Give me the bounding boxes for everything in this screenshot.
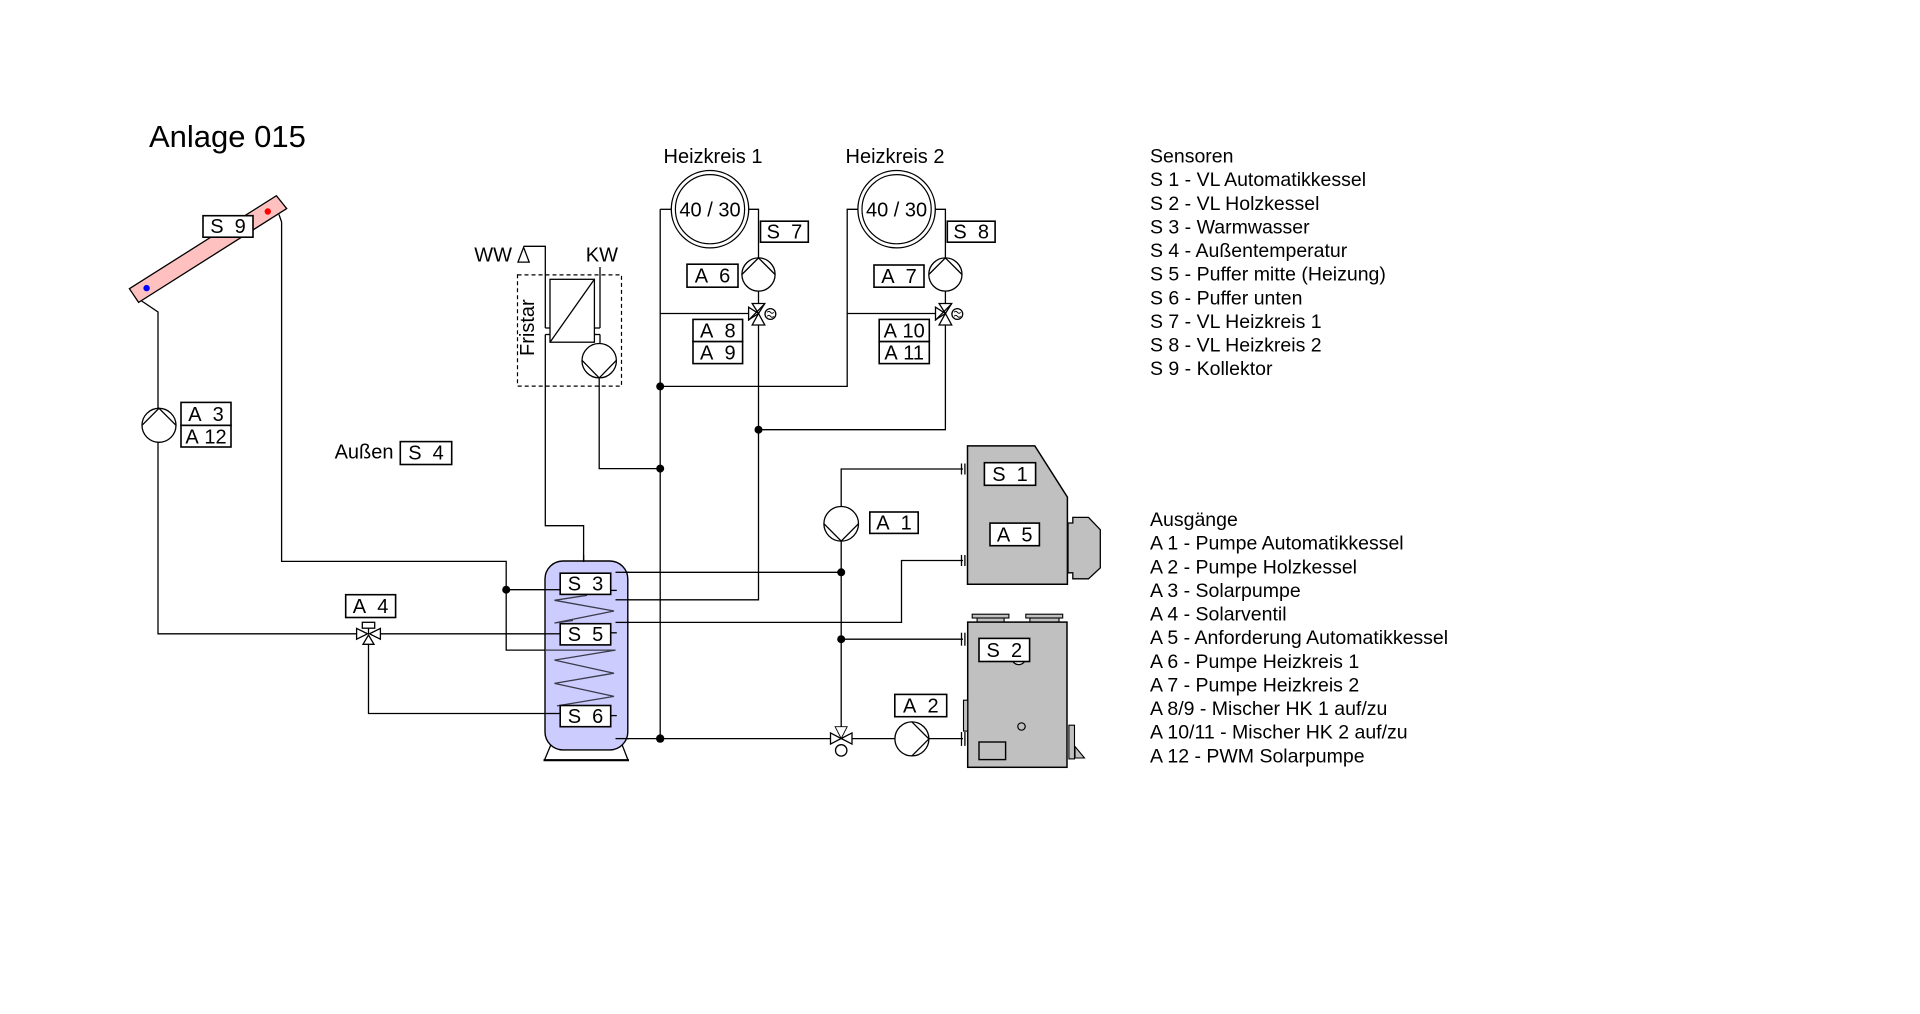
label A12 bbox=[181, 425, 231, 448]
wire: Fristar return to main line bbox=[599, 378, 660, 469]
wire: HK1 pipe pump to valve and down to junction, then to tank bbox=[616, 291, 759, 600]
thermic valve at boiler2 return bbox=[831, 727, 853, 756]
label A2 bbox=[895, 694, 947, 717]
svg-text:S 6: S 6 bbox=[568, 706, 604, 728]
wire: HK1/HK2 return header bbox=[660, 209, 858, 386]
svg-text:A 5: A 5 bbox=[997, 524, 1033, 546]
svg-text:S 9 - Kollektor: S 9 - Kollektor bbox=[1150, 358, 1273, 380]
svg-text:S 5: S 5 bbox=[568, 624, 604, 646]
wire: HK2 valve return to HK1 line bbox=[759, 325, 946, 430]
svg-text:A 7: A 7 bbox=[881, 266, 917, 288]
svg-text:A 12: A 12 bbox=[185, 426, 226, 448]
svg-text:A 1: A 1 bbox=[876, 513, 912, 535]
mixer valve HK1 bbox=[748, 304, 776, 326]
boiler U1 Automatikkessel bbox=[968, 446, 1068, 584]
left plate bbox=[964, 700, 968, 731]
boiler U2 Holzkessel bbox=[964, 614, 1085, 767]
svg-text:A 12 - PWM Solarpumpe: A 12 - PWM Solarpumpe bbox=[1150, 745, 1365, 767]
small knob circle bbox=[1018, 723, 1025, 730]
fire door bbox=[979, 742, 1006, 760]
label A1 bbox=[870, 512, 918, 535]
svg-text:Heizkreis 1: Heizkreis 1 bbox=[664, 146, 763, 168]
junction dot HK2 return bbox=[656, 382, 664, 390]
svg-text:Ausgänge: Ausgänge bbox=[1150, 509, 1238, 531]
svg-text:A 4 - Solarventil: A 4 - Solarventil bbox=[1150, 604, 1287, 626]
svg-text:S 2: S 2 bbox=[987, 640, 1023, 662]
burner attachment bbox=[1068, 517, 1100, 578]
svg-text:KW: KW bbox=[586, 245, 618, 267]
sensor label S3 bbox=[560, 573, 617, 595]
svg-text:40 / 30: 40 / 30 bbox=[866, 199, 927, 221]
sensor label S9 bbox=[203, 216, 253, 239]
wire: tank S3 right to A1 line bbox=[616, 571, 841, 573]
pump A2 (Holzkessel) bbox=[895, 722, 929, 756]
svg-text:Sensoren: Sensoren bbox=[1150, 146, 1233, 168]
svg-text:S 2 - VL Holzkessel: S 2 - VL Holzkessel bbox=[1150, 193, 1319, 215]
label A6 bbox=[687, 264, 738, 288]
svg-text:A 2 - Pumpe Holzkessel: A 2 - Pumpe Holzkessel bbox=[1150, 556, 1357, 578]
svg-text:A 7 - Pumpe Heizkreis 2: A 7 - Pumpe Heizkreis 2 bbox=[1150, 675, 1359, 697]
svg-text:A 5 - Anforderung Automatikkes: A 5 - Anforderung Automatikkessel bbox=[1150, 627, 1448, 649]
wire: S3 feed inside tank bbox=[545, 589, 560, 591]
wire: WW outlet pipe down to tank top bbox=[524, 246, 546, 328]
label A3 bbox=[181, 402, 231, 426]
chimney stub left bbox=[977, 618, 1004, 622]
wire: solar collector right pipe to tank coil top bbox=[279, 215, 616, 651]
collector hot port (red dot) bbox=[265, 208, 271, 214]
radiator HK1 (40/30) bbox=[671, 171, 748, 248]
sensor label S1 bbox=[984, 463, 1035, 486]
wire: tank bottom to boiler2 lower connection bbox=[616, 738, 963, 740]
wire: HK2 mixer left port line bbox=[847, 313, 935, 315]
solar collector S9 bbox=[129, 196, 286, 303]
wire: valve A4 right port to tank S5 bbox=[380, 633, 560, 635]
pump A6 (HK1) bbox=[742, 258, 775, 291]
wire: boiler2 upper connection bbox=[841, 638, 963, 640]
pump A3 (solar pump) bbox=[142, 408, 176, 442]
heat exchanger port stubs left bbox=[545, 327, 550, 329]
svg-text:S 9: S 9 bbox=[210, 216, 246, 238]
pump A1 (Automatikkessel) bbox=[824, 507, 859, 542]
svg-text:S 8: S 8 bbox=[953, 221, 989, 243]
heat exchanger U-Fristar bbox=[550, 279, 594, 342]
sensor label S8 bbox=[947, 221, 995, 243]
Fristar dashed enclosure bbox=[518, 275, 622, 386]
svg-text:S 7 - VL Heizkreis 1: S 7 - VL Heizkreis 1 bbox=[1150, 311, 1322, 333]
svg-text:A 4: A 4 bbox=[353, 596, 389, 618]
sensor label S6 bbox=[560, 706, 617, 728]
svg-text:A 10: A 10 bbox=[884, 320, 925, 342]
svg-text:A 6 - Pumpe Heizkreis 1: A 6 - Pumpe Heizkreis 1 bbox=[1150, 651, 1359, 673]
mixer valve HK2 bbox=[935, 304, 963, 326]
label A10 bbox=[879, 319, 929, 342]
legend Sensoren bbox=[1150, 146, 1386, 381]
pump Fristar bbox=[582, 344, 616, 378]
svg-text:A 8: A 8 bbox=[700, 320, 736, 342]
junction dot at solar branch bbox=[502, 586, 510, 594]
heat exchanger port stubs right bbox=[594, 327, 600, 329]
wire: right port stub tank bottom bbox=[616, 738, 630, 740]
svg-text:S 3 - Warmwasser: S 3 - Warmwasser bbox=[1150, 216, 1310, 238]
flange boiler2 lower bbox=[962, 732, 965, 746]
svg-text:S 1: S 1 bbox=[992, 464, 1028, 486]
svg-text:WW: WW bbox=[474, 245, 512, 267]
wire: main vertical line (Heizkreis 1 left / tank bottom) bbox=[659, 209, 661, 738]
WW tap symbol bbox=[518, 247, 529, 262]
svg-text:S 4: S 4 bbox=[408, 443, 444, 465]
flange boiler2 upper bbox=[962, 633, 965, 646]
wire: S5 feed inside tank bbox=[545, 633, 560, 635]
label A7 bbox=[874, 265, 924, 288]
svg-text:A 10/11 - Mischer HK 2 auf/zu: A 10/11 - Mischer HK 2 auf/zu bbox=[1150, 722, 1408, 744]
wire: S6 feed inside tank bbox=[545, 713, 560, 715]
wire: right port stub HK return level bbox=[616, 599, 630, 601]
flange boiler1 upper bbox=[962, 464, 965, 475]
buffer tank stand bbox=[544, 745, 630, 761]
wire: boiler1 upper connection to pump A1 bbox=[841, 469, 963, 727]
right plate bbox=[1069, 725, 1075, 759]
label A11 bbox=[879, 342, 929, 365]
tank top port line bbox=[583, 555, 585, 562]
wire: HK1 supply pipe right bbox=[748, 209, 759, 258]
label A8 bbox=[693, 319, 743, 342]
svg-text:40 / 30: 40 / 30 bbox=[679, 199, 740, 221]
wire: right port stub boiler1 level bbox=[616, 621, 630, 623]
wire: HK2 pump to valve bbox=[944, 291, 946, 303]
sensor label S2 bbox=[979, 638, 1030, 661]
wire: HK1 mixer left port line bbox=[660, 313, 748, 315]
sensor label S4 bbox=[400, 442, 451, 465]
svg-text:S 1 - VL Automatikkessel: S 1 - VL Automatikkessel bbox=[1150, 169, 1366, 191]
junction dot A1/boiler2 bbox=[837, 635, 845, 643]
wire: right port stub S3 level bbox=[616, 571, 630, 573]
svg-text:A 6: A 6 bbox=[695, 266, 731, 288]
wire: valve A4 bottom port to tank S6 bbox=[369, 644, 561, 713]
junction dot HK return join bbox=[755, 426, 763, 434]
svg-text:A 11: A 11 bbox=[884, 343, 924, 365]
svg-text:A 2: A 2 bbox=[903, 695, 939, 717]
svg-text:A 1 - Pumpe Automatikkessel: A 1 - Pumpe Automatikkessel bbox=[1150, 533, 1404, 555]
chimney stub right bbox=[1030, 618, 1059, 622]
label A5 bbox=[990, 523, 1039, 546]
right bracket triangle bbox=[1075, 747, 1085, 759]
radiator HK2 (40/30) bbox=[858, 171, 935, 248]
svg-text:Außen: Außen bbox=[335, 442, 394, 464]
wire: KW inlet pipe bbox=[599, 267, 601, 328]
svg-text:A 9: A 9 bbox=[700, 343, 736, 365]
legend Ausgaenge bbox=[1150, 509, 1448, 767]
svg-text:Heizkreis 2: Heizkreis 2 bbox=[846, 146, 945, 168]
thermometer circle behind S2 bbox=[1012, 651, 1026, 665]
svg-text:A 3: A 3 bbox=[188, 404, 224, 426]
collector cold port (blue dot) bbox=[143, 285, 149, 291]
junction dot A1/tank-S3 bbox=[837, 568, 845, 576]
wire: HK1 circle left stub bbox=[660, 208, 671, 210]
junction dot tank bottom bbox=[656, 734, 664, 742]
sensor label S5 bbox=[560, 624, 617, 646]
svg-text:Fristar: Fristar bbox=[517, 299, 539, 356]
label A4 bbox=[346, 595, 396, 618]
flange boiler1 lower bbox=[962, 555, 965, 566]
junction dot Fristar return bbox=[656, 465, 664, 473]
svg-text:A 3 - Solarpumpe: A 3 - Solarpumpe bbox=[1150, 580, 1301, 602]
svg-text:A 8/9 - Mischer HK 1 auf/zu: A 8/9 - Mischer HK 1 auf/zu bbox=[1150, 698, 1387, 720]
svg-text:S 5 - Puffer mitte (Heizung): S 5 - Puffer mitte (Heizung) bbox=[1150, 264, 1386, 286]
wire: solar collector left pipe down to valve A4 bbox=[137, 298, 357, 634]
svg-text:Anlage 015: Anlage 015 bbox=[149, 119, 306, 154]
coil lower (exchanger below S5) bbox=[545, 650, 616, 706]
svg-text:S 7: S 7 bbox=[767, 221, 803, 243]
boiler2 body bbox=[968, 622, 1067, 767]
label A9 bbox=[693, 342, 743, 365]
valve A4 (solar 3-way valve) bbox=[357, 622, 381, 644]
coil upper (solar exchanger S3-S5) bbox=[555, 595, 615, 623]
buffer tank (Puffer) bbox=[545, 561, 628, 750]
sensor label S7 bbox=[761, 221, 809, 243]
svg-text:S 3: S 3 bbox=[568, 574, 604, 596]
svg-text:S 4 - Außentemperatur: S 4 - Außentemperatur bbox=[1150, 240, 1348, 262]
svg-text:S 6 - Puffer unten: S 6 - Puffer unten bbox=[1150, 287, 1303, 309]
pump A7 (HK2) bbox=[929, 258, 962, 291]
wire: tank right to boiler1 lower connection bbox=[616, 561, 963, 623]
wire: branch to S3 coil inlet bbox=[506, 589, 560, 591]
svg-text:S 8 - VL Heizkreis 2: S 8 - VL Heizkreis 2 bbox=[1150, 335, 1322, 357]
wire: HK2 supply pipe right bbox=[935, 209, 945, 258]
